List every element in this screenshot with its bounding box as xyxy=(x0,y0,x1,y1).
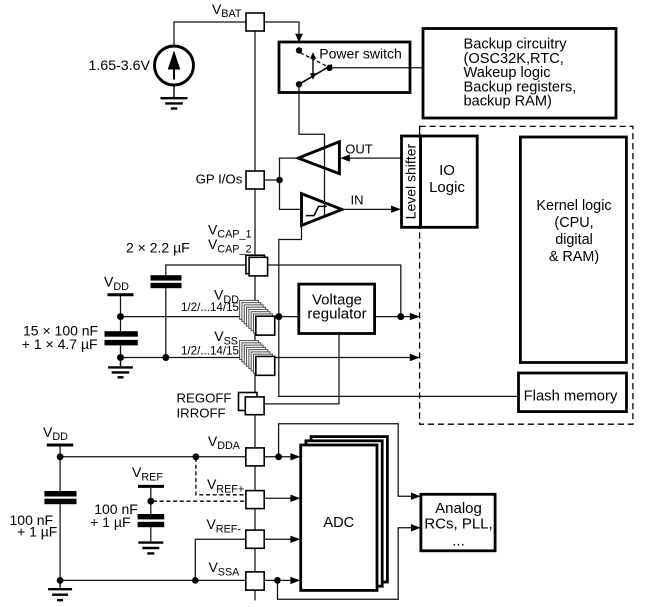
wire VREF cap to ground xyxy=(150,527,152,541)
wire regulator output with arrow to kernel xyxy=(375,313,420,320)
wire VDDA top bypass to analog block xyxy=(279,424,421,500)
pin REGOFF IRROFF (double pad) xyxy=(239,393,265,415)
wire regulator to REGOFF pin xyxy=(264,334,339,404)
svg-text:backup RAM): backup RAM) xyxy=(464,94,552,110)
pin VSSA xyxy=(246,572,264,590)
wire VSSA to ADC with arrow xyxy=(264,577,300,584)
wire VSSA bottom bypass to analog block xyxy=(278,524,421,599)
wire VBAT pad to battery source xyxy=(174,22,246,47)
svg-text:Flash memory: Flash memory xyxy=(524,388,618,404)
label voltage regulator xyxy=(307,292,366,323)
IO logic box xyxy=(421,136,478,227)
wire junction to input trigger xyxy=(280,180,302,209)
label kernel logic xyxy=(536,198,611,265)
wire VDD analog cap stems xyxy=(59,457,61,581)
ground (battery source) xyxy=(161,85,188,109)
wire capacitor 2.2uF to VSS rail xyxy=(165,288,167,357)
svg-text:Kernel logic: Kernel logic xyxy=(536,198,611,214)
label VDDA xyxy=(208,433,241,452)
svg-text:+ 1 µF: + 1 µF xyxy=(17,524,57,540)
power switch box xyxy=(279,42,410,93)
svg-text:Level shifter: Level shifter xyxy=(402,144,418,220)
pin GP I/Os xyxy=(246,171,264,189)
label IN xyxy=(351,193,364,208)
wire VDD cap stems xyxy=(120,318,122,358)
wire VSS bus with arrow to kernel xyxy=(274,354,420,361)
label Power switch xyxy=(319,46,401,62)
ground (VDD analog) xyxy=(48,582,72,600)
output buffer (triangle) xyxy=(298,142,339,174)
wire VDD pins to node xyxy=(274,316,280,318)
svg-text:OUT: OUT xyxy=(345,142,373,157)
node VDD bus to regulator xyxy=(275,313,282,320)
wire VCAP to capacitor xyxy=(166,265,246,276)
pin VDDA xyxy=(246,448,264,466)
battery source 1.65-3.6V xyxy=(155,46,194,85)
pin VREF- xyxy=(246,530,264,548)
svg-text:(CPU,: (CPU, xyxy=(554,215,593,231)
svg-text:RCs, PLL,: RCs, PLL, xyxy=(424,516,492,533)
svg-text:...: ... xyxy=(452,533,465,550)
label 100 nF + 1 uF (VDD analog) xyxy=(10,512,58,540)
svg-text:2 × 2.2 µF: 2 × 2.2 µF xyxy=(126,240,190,256)
pin VBAT xyxy=(246,13,264,31)
node VREF junction xyxy=(147,498,154,505)
wire schmitt output down to VDD node and flash memory xyxy=(279,225,519,396)
wire VCAP to regulator output node xyxy=(268,265,401,317)
label 1.65-3.6V xyxy=(88,58,150,74)
backup circuitry box xyxy=(423,29,616,119)
wire power switch output down through buffers xyxy=(299,86,325,218)
node VDDA junction xyxy=(275,453,282,460)
svg-text:GP I/Os: GP I/Os xyxy=(196,171,243,186)
svg-text:1/2/...14/15: 1/2/...14/15 xyxy=(181,301,239,314)
label VDD (decoupling rail) xyxy=(104,273,129,292)
node capacitor 2.2uF to VSS xyxy=(162,354,169,361)
wire VSS ground rail xyxy=(121,357,263,359)
wire VSSA line xyxy=(60,579,246,581)
svg-text:ADC: ADC xyxy=(323,515,354,531)
kernel logic box xyxy=(520,137,626,363)
node VREF- to VSSA xyxy=(192,577,199,584)
label VREF- xyxy=(206,516,241,535)
svg-text:digital: digital xyxy=(555,232,593,248)
ADC block (stacked) xyxy=(301,437,388,591)
svg-text:1/2/...14/15: 1/2/...14/15 xyxy=(181,345,239,358)
voltage regulator box xyxy=(299,284,375,333)
level shifter box xyxy=(402,136,421,227)
label analog RCs PLL xyxy=(424,500,492,549)
wire VDD rail to VDDA line xyxy=(59,447,61,457)
label VDD 1/2/...14/15 xyxy=(181,287,239,315)
pin column wire xyxy=(254,31,256,601)
node VSS rail junction xyxy=(117,354,124,361)
node regulator output / VCAP xyxy=(397,313,404,320)
label REGOFF IRROFF xyxy=(177,391,232,421)
svg-text:REGOFF: REGOFF xyxy=(177,391,232,406)
wire VBAT to power switch xyxy=(264,22,303,43)
node VSSA analog junction xyxy=(57,577,64,584)
label VBAT xyxy=(212,1,242,20)
wire VREF stem xyxy=(150,488,152,514)
node GP I/Os junction xyxy=(276,177,283,184)
label VSSA xyxy=(208,559,240,578)
wire VDDA to ADC with arrow xyxy=(264,453,300,460)
node VDDA to dashed link xyxy=(193,453,200,460)
ground (VREF) xyxy=(138,543,163,554)
wire VREF- to ADC with arrow xyxy=(264,536,300,543)
analog RCs PLL box xyxy=(421,494,495,551)
svg-text:IO: IO xyxy=(439,162,455,179)
VDD rail bar xyxy=(108,293,134,296)
pin VCAP_1 VCAP_2 (double pad) xyxy=(246,255,268,276)
svg-text:Logic: Logic xyxy=(429,179,465,196)
node VDD analog junction xyxy=(57,453,64,460)
node VSSA junction xyxy=(274,577,281,584)
wire VREF- to VSSA rail xyxy=(195,539,246,580)
svg-text:IRROFF: IRROFF xyxy=(177,406,226,421)
pins VSS 1..15 (stacked pads) xyxy=(240,341,275,376)
label flash memory xyxy=(524,388,618,404)
label IO logic xyxy=(429,162,465,196)
wire VREF+ to ADC with arrow xyxy=(264,495,300,502)
label 2 x 2.2 uF xyxy=(126,240,190,256)
dashed boundary tick xyxy=(419,128,421,134)
label OUT xyxy=(345,142,373,157)
label 100 nF + 1 uF (VREF) xyxy=(90,501,138,530)
svg-text:+ 1 µF: + 1 µF xyxy=(90,514,130,530)
flash memory box xyxy=(519,373,627,412)
wire VDD bus to regulator xyxy=(121,316,299,318)
input schmitt trigger (triangle) xyxy=(302,194,343,226)
label VSS 1/2/...14/15 xyxy=(181,328,239,358)
label GP I/Os xyxy=(196,171,243,186)
pins VDD 1..15 (stacked pads) xyxy=(240,300,275,335)
label ADC xyxy=(323,515,354,531)
ground (VSS rail) xyxy=(108,359,133,377)
label 15 x 100 nF + 1 x 4.7 uF xyxy=(22,322,98,352)
label VDD (analog rail) xyxy=(43,424,68,443)
label backup circuitry xyxy=(464,37,577,110)
wire power switch to backup circuitry xyxy=(333,67,423,69)
wire IN with arrow xyxy=(342,206,401,213)
label level shifter xyxy=(402,144,418,220)
wire GP I/Os to buffers xyxy=(264,179,279,181)
label VREF xyxy=(132,464,163,483)
dashed wire VDDA to VREF+ xyxy=(196,458,246,495)
capacitor 15 x 100 nF + 1 x 4.7 uF xyxy=(105,331,138,345)
VDD analog rail bar xyxy=(47,444,73,447)
capacitor 2 x 2.2 uF xyxy=(151,275,182,288)
label VCAP_2 xyxy=(208,236,252,255)
wire VDDA line xyxy=(60,456,246,458)
wire junction to output buffer xyxy=(280,158,299,180)
wire OUT with arrow xyxy=(340,154,401,161)
capacitor 100 nF + 1 uF (VDD analog) xyxy=(44,491,76,504)
capacitor 100 nF + 1 uF (VREF) xyxy=(138,514,165,527)
dashed chip boundary xyxy=(420,126,633,424)
label VCAP_1 xyxy=(208,221,252,240)
node VDD rail junction xyxy=(117,313,124,320)
wire VDD rail to VDD bus xyxy=(120,296,122,317)
svg-text:Power switch: Power switch xyxy=(319,46,401,62)
VREF rail bar xyxy=(138,485,164,488)
svg-text:regulator: regulator xyxy=(307,305,366,322)
switch contacts and lever xyxy=(296,47,333,87)
dashed wire VREF to VREF+ xyxy=(153,500,246,502)
label VREF+ xyxy=(207,476,244,495)
svg-text:IN: IN xyxy=(351,193,364,208)
svg-text:+ 1 × 4.7 µF: + 1 × 4.7 µF xyxy=(22,336,98,352)
svg-text:& RAM): & RAM) xyxy=(549,249,599,265)
pin VREF+ xyxy=(246,491,264,509)
svg-text:1.65-3.6V: 1.65-3.6V xyxy=(88,58,150,74)
